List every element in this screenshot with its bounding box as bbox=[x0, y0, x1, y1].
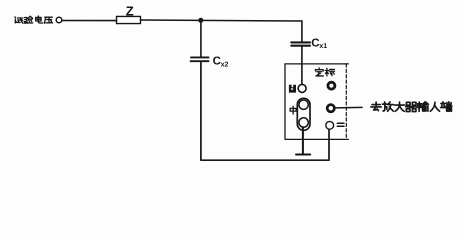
wire: Z to corner bbox=[141, 20, 303, 21]
svg-text:Z: Z bbox=[126, 3, 134, 18]
svg-text:x2: x2 bbox=[221, 61, 229, 68]
电 bbox=[36, 16, 43, 23]
terminal output (middle-right, dark ring) bbox=[327, 105, 334, 112]
svg-text:x1: x1 bbox=[319, 43, 327, 50]
标 bbox=[325, 68, 334, 76]
去 bbox=[371, 102, 381, 111]
压 bbox=[44, 17, 52, 23]
wire: output terminal to amplifier bbox=[336, 106, 362, 109]
端 bbox=[441, 102, 452, 111]
wire: corner down to Cx1 bbox=[301, 21, 303, 42]
label Cx2 bbox=[213, 55, 229, 68]
wire: junction down to Cx2 bbox=[200, 20, 202, 57]
label (two bars) right of bottom terminal bbox=[337, 123, 344, 126]
器 bbox=[406, 102, 417, 111]
detection impedance box dashed right edge bbox=[345, 64, 347, 139]
label 去放大器输入端 (to amplifier input) bbox=[371, 102, 452, 112]
大 bbox=[394, 102, 404, 111]
label 试验电压 (test voltage) bbox=[15, 16, 53, 23]
label blob left of input terminal bbox=[289, 85, 296, 93]
入 bbox=[430, 102, 439, 111]
label 中 bbox=[290, 106, 296, 114]
label 定标 (calibration) bbox=[315, 68, 334, 76]
label Cx1 bbox=[311, 38, 327, 51]
wire: Cx1 down into box to terminal M bbox=[301, 46, 303, 84]
验 bbox=[24, 16, 32, 23]
impedance Z box bbox=[117, 16, 141, 23]
svg-text:C: C bbox=[311, 38, 319, 50]
terminal input (top-left in box) bbox=[298, 84, 306, 92]
detection impedance box (solid left/top/bottom) bbox=[285, 64, 348, 139]
wire: terminal to Z bbox=[62, 20, 116, 22]
capacitor Cx1 bbox=[291, 42, 310, 45]
terminal: test voltage input bbox=[56, 17, 62, 23]
定 bbox=[315, 68, 323, 76]
放 bbox=[382, 102, 393, 111]
wire: Cx2 down, bottom wire, up to terminal bbox=[201, 61, 329, 160]
试 bbox=[15, 17, 23, 23]
ground bbox=[296, 127, 310, 154]
node A junction dot bbox=[198, 18, 203, 23]
输 bbox=[417, 102, 428, 111]
terminal bottom-right (thin ring) bbox=[326, 121, 334, 129]
dual-socket jack (stadium with two circles) bbox=[297, 98, 310, 130]
terminal 定标 (dark ring below label) bbox=[328, 82, 335, 89]
capacitor Cx2 bbox=[191, 57, 209, 61]
